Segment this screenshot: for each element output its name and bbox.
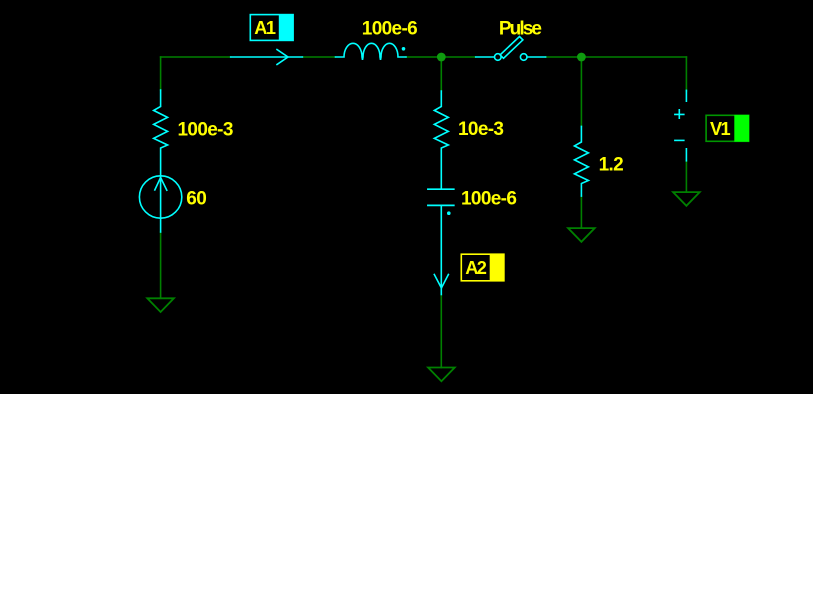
svg-text:A1: A1 bbox=[254, 18, 276, 38]
svg-text:100e-3: 100e-3 bbox=[178, 119, 233, 140]
svg-text:A2: A2 bbox=[465, 258, 487, 278]
wire left branch upper bbox=[160, 57, 162, 90]
inductor L1 coil bbox=[336, 43, 407, 60]
wire right branch lower bbox=[580, 196, 582, 228]
switch Pulse bbox=[476, 37, 546, 61]
current source IS1 internal line bbox=[160, 176, 162, 232]
label box A1 bbox=[250, 14, 293, 41]
node A junction dot bbox=[437, 53, 446, 62]
svg-text:60: 60 bbox=[186, 189, 206, 210]
wire between inductor and switch bbox=[406, 56, 476, 58]
wire middle branch lower bbox=[440, 295, 442, 368]
capacitor C1 bottom plate bbox=[428, 204, 454, 206]
svg-text:100e-6: 100e-6 bbox=[362, 18, 417, 39]
voltage probe V1 dashes and signs bbox=[675, 90, 687, 160]
ground middle bbox=[428, 368, 455, 382]
current source IS1 circle bbox=[139, 176, 181, 218]
wire far-right branch lower bbox=[685, 161, 687, 192]
current source IS1 arrow bbox=[155, 178, 167, 191]
capacitor C1 polarity dot bbox=[447, 211, 451, 215]
label box A2 bbox=[461, 254, 504, 281]
resistor R3 1.2 bbox=[574, 126, 588, 196]
ground left bbox=[147, 298, 174, 312]
label box V1 bbox=[706, 115, 749, 142]
wire between ammeter and inductor bbox=[302, 56, 335, 58]
svg-text:100e-6: 100e-6 bbox=[461, 188, 516, 209]
svg-text:V1: V1 bbox=[710, 119, 731, 139]
resistor R1 100e-3 bbox=[154, 90, 168, 176]
svg-text:1.2: 1.2 bbox=[599, 154, 624, 175]
wire middle branch upper bbox=[440, 57, 442, 91]
ground far-right bbox=[673, 192, 700, 206]
svg-text:10e-3: 10e-3 bbox=[458, 119, 503, 140]
wire far-right branch upper bbox=[685, 57, 687, 91]
wire top-left horizontal bbox=[161, 56, 231, 58]
wire from switch to top-right corner bbox=[546, 56, 687, 58]
ammeter A1 inline element bbox=[231, 50, 303, 65]
ground right bbox=[568, 228, 595, 242]
ammeter A2 inline element bbox=[434, 205, 448, 294]
wire right branch upper bbox=[580, 57, 582, 126]
resistor R2 10e-3 bbox=[434, 91, 448, 189]
inductor L1 polarity dot bbox=[402, 47, 406, 51]
capacitor C1 top plate bbox=[428, 188, 454, 190]
svg-text:Pulse: Pulse bbox=[499, 18, 542, 39]
node B junction dot bbox=[577, 53, 586, 62]
wire left branch lower bbox=[160, 232, 162, 298]
